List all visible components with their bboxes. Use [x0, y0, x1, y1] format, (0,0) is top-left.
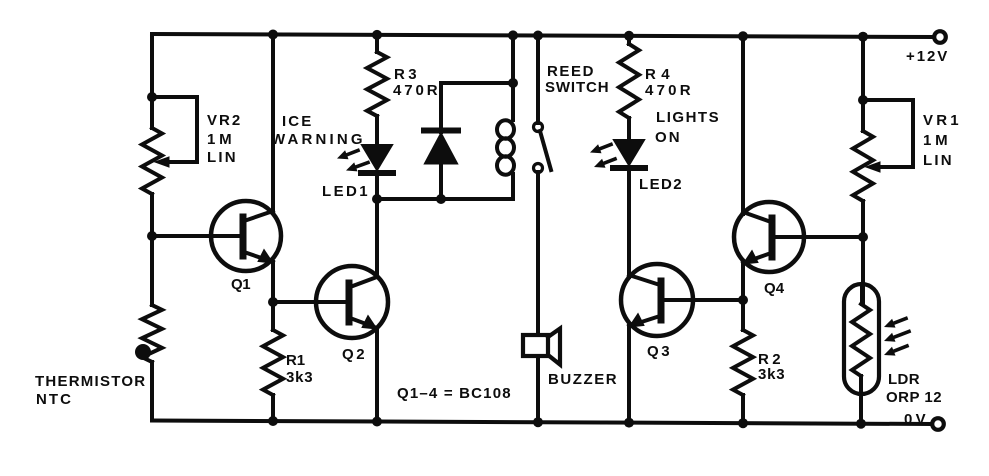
- wire diode bottom lead: [439, 163, 443, 199]
- svg-text:LED2: LED2: [639, 176, 682, 193]
- junction top rail Q4: [738, 31, 748, 41]
- transistor Q2 emitter arrow: [362, 316, 377, 330]
- transistor Q2 base bar: [346, 283, 353, 322]
- wire R4 top: [627, 36, 631, 44]
- relay coil RLA: [497, 83, 514, 199]
- wire node to LDR: [862, 237, 863, 304]
- terminal 0V: [932, 418, 944, 430]
- svg-text:Q3: Q3: [647, 343, 670, 360]
- wire Q2 emitter to bottom rail: [375, 328, 379, 422]
- wire LED1 to node: [375, 174, 379, 199]
- svg-text:R3: R3: [394, 66, 417, 83]
- transistor Q4 collector lead: [743, 212, 771, 222]
- svg-text:SWITCH: SWITCH: [545, 79, 609, 96]
- svg-text:470R: 470R: [645, 82, 691, 99]
- svg-text:LDR: LDR: [888, 371, 920, 388]
- transistor Q2 collector lead: [350, 277, 377, 287]
- svg-text:3k3: 3k3: [758, 366, 785, 383]
- LDR light arrow 3: [884, 346, 907, 356]
- wire relay branch from top rail: [511, 35, 515, 83]
- wire reed switch upper lead: [536, 36, 540, 124]
- LDR light arrow 1: [884, 319, 906, 328]
- transistor Q3 base bar: [658, 281, 665, 320]
- LED1 cathode bar: [361, 170, 393, 176]
- svg-text:Q4: Q4: [764, 280, 785, 297]
- transistor Q4 base bar: [769, 218, 776, 257]
- wire R1 to bottom rail: [271, 395, 275, 421]
- LED1 emission arrow upper: [337, 150, 358, 159]
- thermistor NTC bead dot: [135, 344, 151, 360]
- junction Q3 base node: [738, 295, 748, 305]
- transistor Q1 emitter lead: [244, 252, 273, 262]
- LED1 emission arrow lower: [346, 162, 368, 171]
- wire Q2 base from node: [273, 300, 347, 304]
- potentiometer VR2 wiper bracket: [152, 97, 197, 162]
- junction Q4 base node: [858, 232, 868, 242]
- svg-text:R1: R1: [286, 352, 306, 369]
- wire top rail +12V: [152, 34, 933, 37]
- wire LDR to bottom rail: [859, 376, 863, 424]
- svg-text:Q1: Q1: [231, 276, 251, 293]
- svg-text:NTC: NTC: [36, 391, 71, 408]
- junction top rail R3: [372, 30, 382, 40]
- wire VR1 branch from top rail: [861, 37, 865, 131]
- wire Q1 collector to top rail: [271, 35, 275, 214]
- transistor Q3 emitter arrow: [629, 314, 644, 328]
- wire Q3 base to node: [663, 298, 743, 302]
- junction LED1 bottom: [372, 194, 382, 204]
- junction bottom rail Q2: [372, 417, 382, 427]
- junction VR2 top: [147, 92, 157, 102]
- diode D1 cathode bar: [424, 128, 458, 134]
- wire buzzer to bottom rail: [536, 356, 540, 422]
- wire left rail middle segment: [150, 194, 154, 305]
- svg-text:VR2: VR2: [207, 112, 241, 129]
- svg-text:Q2: Q2: [342, 346, 365, 363]
- buzzer horn: [548, 329, 560, 365]
- LED1 triangle: [362, 145, 392, 170]
- junction VR1 top: [858, 95, 868, 105]
- wire VR1 to Q4 base node: [861, 201, 865, 237]
- potentiometer VR1 wiper bracket: [863, 100, 913, 167]
- reed switch lower contact: [534, 164, 543, 173]
- svg-text:ICE: ICE: [282, 113, 312, 130]
- LED2 cathode bar: [613, 165, 645, 171]
- svg-text:ORP 12: ORP 12: [886, 389, 942, 406]
- transistor Q1 base bar: [240, 217, 247, 256]
- transistor Q2 emitter lead: [350, 318, 377, 328]
- wire left rail upper segment: [150, 34, 154, 128]
- junction relay top: [508, 78, 518, 88]
- diode D1 triangle: [425, 134, 457, 164]
- wire R2 to bottom rail: [741, 395, 745, 423]
- transistor Q1 emitter arrow: [258, 250, 273, 264]
- junction bottom rail buzzer: [533, 417, 543, 427]
- wire Q2 collector vertical: [375, 199, 379, 277]
- svg-text:LIN: LIN: [207, 149, 236, 166]
- wire node to R2: [741, 300, 745, 330]
- junction diode bottom: [436, 194, 446, 204]
- resistor R4 body: [619, 44, 639, 118]
- wire node LED1 to relay bottom: [377, 197, 513, 201]
- svg-text:LIN: LIN: [923, 152, 952, 169]
- svg-text:VR1: VR1: [923, 112, 959, 129]
- reed switch upper contact: [534, 123, 543, 132]
- resistor R1 body: [263, 330, 283, 395]
- LDR body: [852, 304, 870, 376]
- junction top rail relay: [508, 30, 518, 40]
- svg-text:1M: 1M: [923, 132, 948, 149]
- transistor Q3 collector lead: [629, 275, 660, 285]
- LED2 emission arrow lower: [594, 159, 615, 168]
- wire bottom rail 0V: [152, 421, 931, 425]
- wire R3 top: [375, 35, 379, 52]
- wire Q4 emitter down to node: [741, 263, 745, 300]
- svg-text:WARNING: WARNING: [271, 131, 363, 148]
- wire left rail lower segment: [150, 362, 154, 421]
- svg-text:Q1–4 = BC108: Q1–4 = BC108: [397, 385, 511, 402]
- svg-text:REED: REED: [547, 63, 594, 80]
- svg-text:LED1: LED1: [322, 183, 368, 200]
- transistor Q4 circle: [734, 202, 804, 272]
- potentiometer VR2 wiper arrow: [155, 157, 169, 167]
- transistor Q1 collector lead: [244, 211, 273, 221]
- svg-text:3k3: 3k3: [286, 369, 313, 386]
- junction bottom rail R1: [268, 416, 278, 426]
- svg-text:1M: 1M: [207, 131, 232, 148]
- junction top rail R4: [624, 31, 634, 41]
- LDR capsule: [844, 284, 879, 394]
- wire Q1 emitter down to node: [271, 262, 275, 302]
- junction Q1 base: [147, 231, 157, 241]
- wire node to R1: [271, 302, 275, 330]
- reed switch blade: [540, 131, 551, 170]
- resistor R3 body: [367, 52, 387, 116]
- svg-text:+12V: +12V: [906, 48, 948, 65]
- svg-text:R4: R4: [645, 66, 670, 83]
- junction bottom rail Q3: [624, 418, 634, 428]
- wire Q4 base to VR1 branch: [776, 235, 863, 239]
- potentiometer VR1 body: [853, 131, 873, 201]
- transistor Q3 circle: [621, 264, 693, 336]
- LED2 triangle: [614, 140, 644, 165]
- transistor Q1 circle: [211, 201, 281, 271]
- transistor Q3 emitter lead: [629, 316, 660, 326]
- LED2 emission arrow upper: [590, 144, 611, 153]
- svg-text:0V: 0V: [904, 411, 926, 428]
- wire Q4 collector to top rail: [741, 36, 745, 214]
- buzzer body: [523, 335, 548, 356]
- junction bottom rail R2: [738, 418, 748, 428]
- wire R3 to LED1: [375, 116, 379, 145]
- junction top rail Q1: [268, 30, 278, 40]
- wire Q1 base from left rail: [152, 234, 241, 238]
- transistor Q4 emitter arrow: [743, 251, 758, 265]
- terminal +12V: [934, 31, 946, 43]
- wire Q3 emitter to bottom rail: [627, 326, 631, 423]
- potentiometer VR2 body: [142, 128, 162, 194]
- svg-text:BUZZER: BUZZER: [548, 371, 617, 388]
- transistor Q2 circle: [316, 266, 388, 338]
- resistor R2 body: [733, 330, 753, 395]
- svg-text:470R: 470R: [393, 82, 438, 99]
- wire diode top to relay top: [441, 81, 513, 85]
- wire LED2 to Q3 collector: [627, 169, 631, 277]
- junction bottom rail LDR: [856, 419, 866, 429]
- svg-text:ON: ON: [655, 129, 680, 146]
- wire R4 to LED2: [627, 118, 631, 140]
- svg-text:LIGHTS: LIGHTS: [656, 109, 719, 126]
- junction Q1 emitter node: [268, 297, 278, 307]
- svg-text:THERMISTOR: THERMISTOR: [35, 373, 146, 390]
- junction top rail VR1: [858, 32, 868, 42]
- potentiometer VR1 wiper arrow: [866, 162, 880, 172]
- thermistor NTC body: [142, 305, 162, 362]
- junction top rail reed: [533, 31, 543, 41]
- wire reed switch to buzzer: [536, 172, 540, 335]
- transistor Q4 emitter lead: [743, 253, 771, 263]
- LDR light arrow 2: [884, 332, 909, 342]
- wire diode top lead: [439, 83, 443, 132]
